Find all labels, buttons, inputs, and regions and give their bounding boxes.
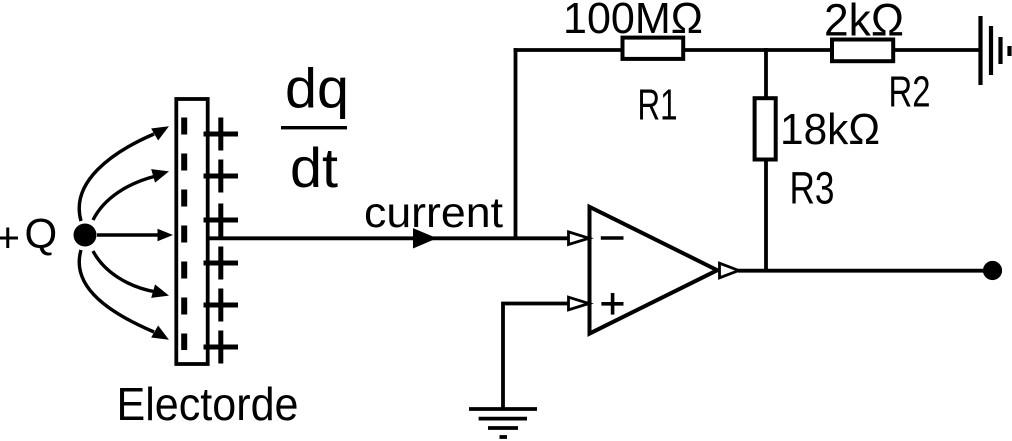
electrode surface positive charges (+ marks) [204, 118, 239, 364]
ground symbol bottom [469, 409, 537, 437]
wire non-inverting input to ground [503, 304, 569, 410]
op-amp plus sign [601, 293, 623, 315]
svg-text:Electorde: Electorde [117, 378, 299, 430]
op-amp output pin marker [720, 263, 739, 278]
resistor R2 body [832, 40, 893, 62]
wire R2 to right ground [893, 48, 980, 52]
svg-text:100MΩ: 100MΩ [563, 0, 703, 43]
field line arrow 3 (straight middle) [97, 229, 173, 242]
resistor R1 body [623, 38, 684, 59]
wire top: feedback node to R1 [514, 48, 624, 52]
wire junction node to R2 [766, 48, 833, 52]
wire feedback vertical drop [514, 48, 518, 238]
op-amp inverting input pin marker [569, 232, 590, 245]
electrode plate [176, 99, 207, 364]
wire junction node down to R3 [764, 48, 768, 100]
field line arrow 2 [93, 165, 171, 220]
electrode dashed charge line [181, 118, 187, 351]
resistor R3 body [755, 98, 776, 159]
output node dot [983, 261, 1002, 280]
field line arrow 4 [93, 251, 171, 302]
svg-text:2kΩ: 2kΩ [824, 0, 904, 46]
op-amp U1 triangle body [590, 207, 718, 334]
field line arrow 1 (top) [79, 120, 172, 221]
wire R1 to junction node [685, 48, 768, 52]
svg-text:18kΩ: 18kΩ [780, 105, 880, 154]
svg-text:current: current [364, 189, 503, 237]
svg-text:+: + [0, 214, 20, 261]
svg-text:Q: Q [25, 210, 58, 257]
wire electrode output to op-amp inverting input [208, 236, 569, 240]
ground symbol right (rotated) [981, 16, 1010, 85]
wire R3 to output wire [764, 160, 768, 273]
svg-text:dt: dt [290, 136, 338, 199]
node +Q charge dot [74, 224, 97, 247]
current direction arrowhead [413, 228, 437, 248]
field line arrow 5 (bottom) [79, 250, 172, 346]
wire op-amp output to output node [738, 269, 992, 273]
label dq/dt fraction [281, 57, 349, 200]
svg-text:R1: R1 [638, 81, 678, 130]
svg-text:R3: R3 [790, 163, 835, 214]
op-amp non-inverting input pin marker [569, 297, 590, 310]
svg-text:R2: R2 [889, 68, 931, 117]
op-amp minus sign [601, 236, 624, 240]
svg-text:dq: dq [285, 57, 349, 120]
